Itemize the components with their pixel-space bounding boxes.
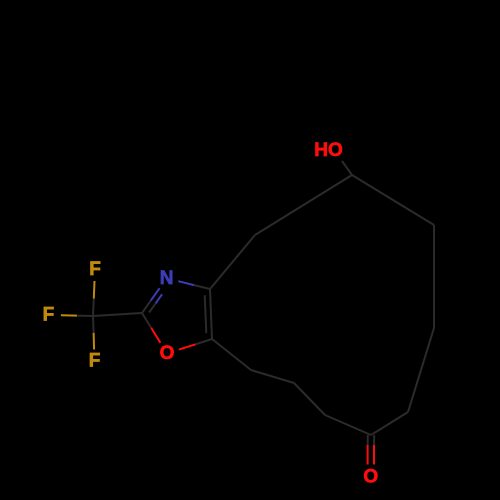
svg-text:F: F	[43, 305, 55, 326]
svg-text:F: F	[89, 351, 101, 372]
svg-text:F: F	[89, 259, 101, 280]
svg-text:O: O	[160, 343, 175, 364]
svg-text:O: O	[363, 467, 378, 488]
svg-text:N: N	[160, 268, 174, 289]
svg-text:HO: HO	[314, 140, 343, 161]
